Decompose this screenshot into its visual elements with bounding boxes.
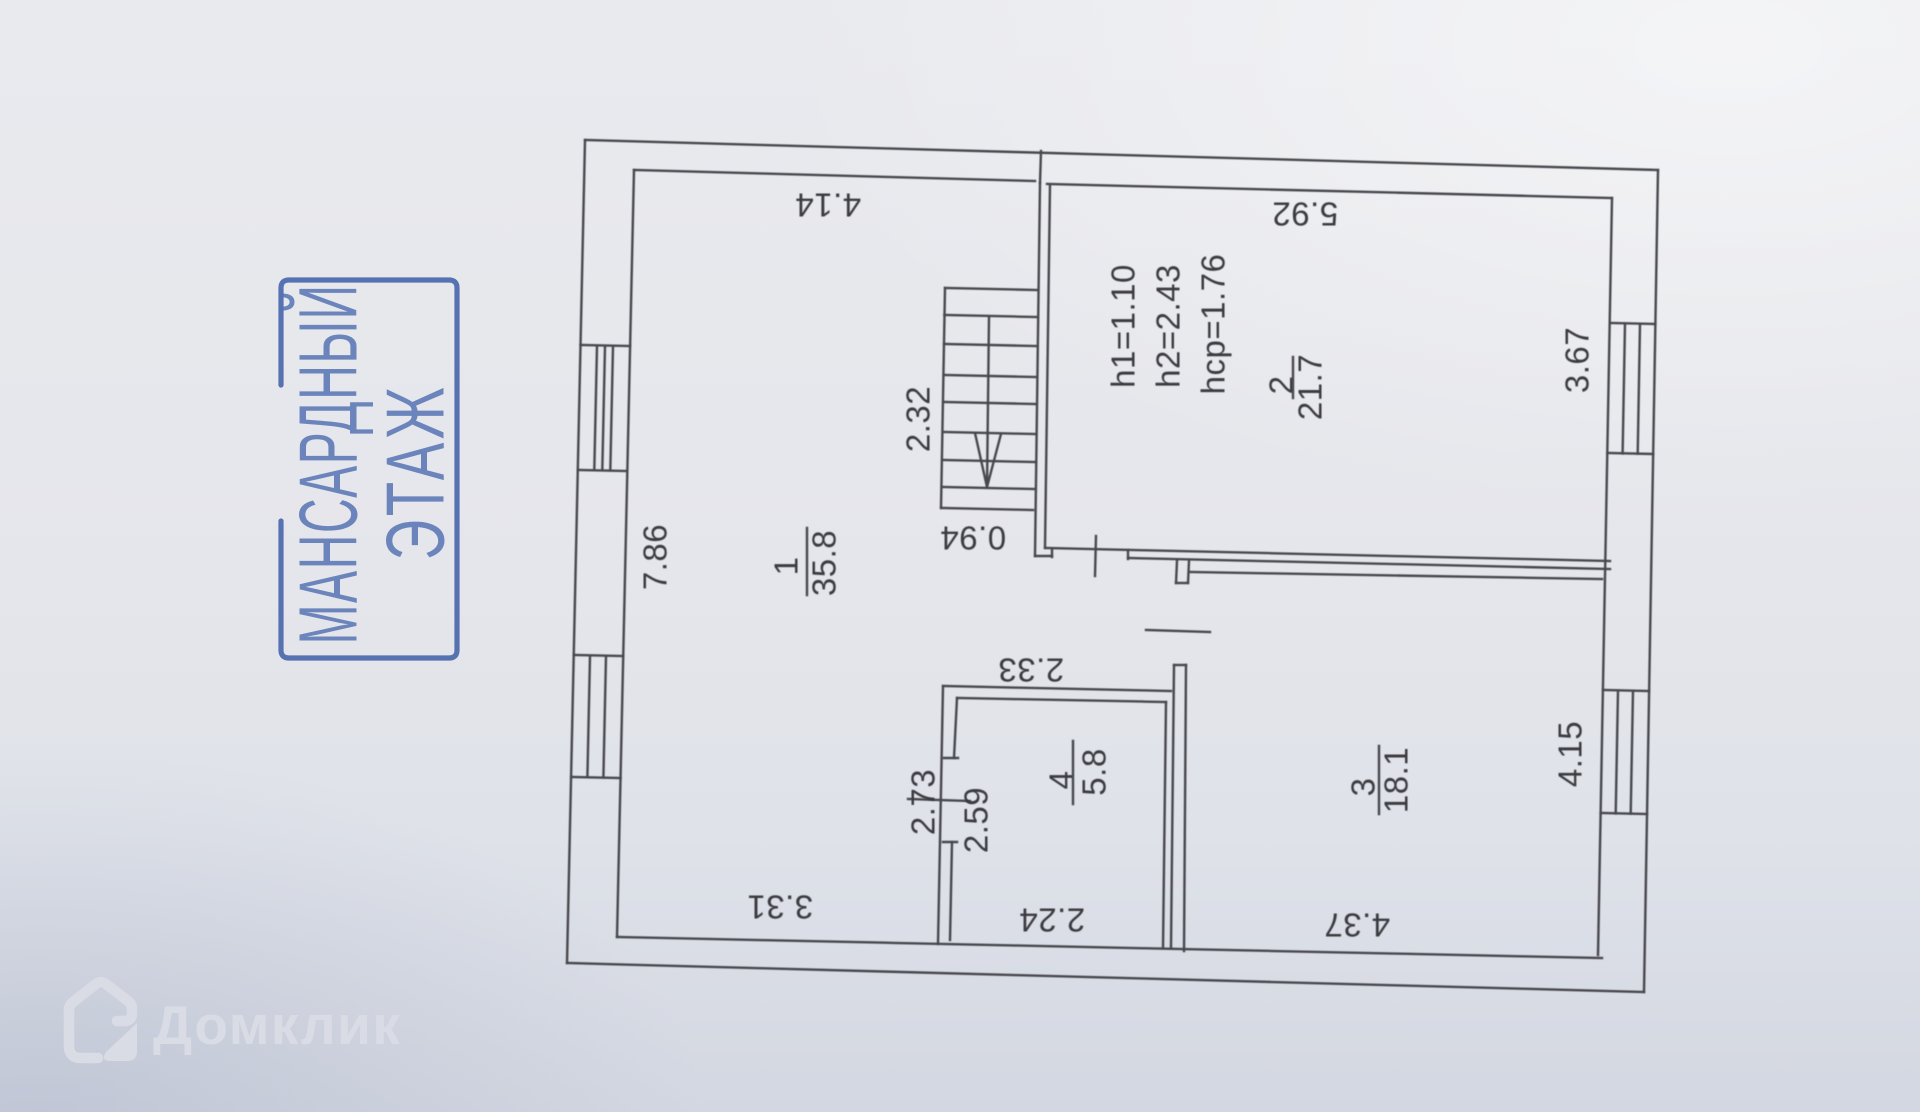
room3 top inner line — [1189, 572, 1602, 579]
svg-text:h1=1.10: h1=1.10 — [1105, 264, 1142, 388]
wall stairs/room2 line b — [1045, 185, 1050, 548]
outer wall left — [567, 140, 585, 963]
window W4 pane line — [1616, 691, 1618, 814]
svg-text:2.59: 2.59 — [958, 787, 995, 853]
room4 right wall — [1163, 702, 1166, 948]
door jamb — [1127, 550, 1129, 559]
room4 left wall outer — [938, 686, 943, 944]
svg-text:1: 1 — [768, 557, 805, 576]
room4 left wall inner upper — [954, 698, 957, 758]
stamp border — [281, 280, 457, 658]
svg-text:2.24: 2.24 — [1019, 902, 1085, 939]
window W3 cap bottom — [1607, 453, 1653, 454]
window W3 pane line — [1623, 324, 1625, 454]
outer wall top — [585, 140, 1658, 170]
svg-text:4: 4 — [1043, 771, 1080, 790]
window W2 cap bottom — [571, 777, 621, 778]
svg-text:МАНСАРДНЫЙ: МАНСАРДНЫЙ — [282, 283, 375, 644]
svg-text:hcp=1.76: hcp=1.76 — [1195, 254, 1232, 395]
outer wall bottom — [567, 963, 1644, 992]
room2 label fraction bar — [1292, 357, 1294, 398]
room3 left wall right line lower — [1184, 665, 1186, 951]
room3 left wall right line upper — [1188, 561, 1189, 583]
room3 left wall left line upper — [1176, 561, 1177, 583]
stairs left — [941, 288, 945, 508]
svg-text:2.73: 2.73 — [905, 769, 942, 835]
watermark house icon — [69, 982, 132, 1058]
room4 label fraction bar — [1072, 741, 1074, 804]
wall stairs/room2 connector — [1040, 151, 1041, 183]
stair arrow right leg — [987, 434, 1001, 487]
stair tread — [944, 375, 1036, 377]
inner wall left — [617, 170, 634, 937]
svg-text:2.33: 2.33 — [998, 652, 1064, 689]
stair center line — [987, 317, 989, 487]
room2 bottom wall lower line right — [1128, 558, 1610, 569]
room4 left wall inner lower — [950, 842, 952, 940]
svg-text:3.67: 3.67 — [1559, 327, 1596, 393]
door jamb — [1051, 549, 1053, 557]
inner wall right — [1598, 198, 1612, 955]
window W3 pane line — [1638, 324, 1640, 454]
stair tread — [943, 460, 1035, 462]
stair tread — [944, 344, 1036, 346]
watermark folded corner — [104, 1023, 137, 1061]
window W1 pane line — [602, 346, 605, 470]
inner wall top room1 — [634, 170, 1035, 181]
window W1 pane line — [610, 347, 613, 471]
svg-text:35.8: 35.8 — [806, 530, 843, 596]
svg-text:5.8: 5.8 — [1076, 748, 1113, 795]
door tick — [1095, 536, 1096, 576]
svg-text:0.94: 0.94 — [940, 520, 1006, 557]
room2 bottom wall upper line — [1045, 548, 1610, 561]
stairs top — [945, 288, 1037, 290]
svg-text:Домклик: Домклик — [153, 994, 401, 1056]
window W2 cap top — [574, 655, 624, 656]
wall stairs/room2 line a — [1035, 183, 1040, 556]
inner wall top room2 — [1047, 184, 1612, 198]
svg-text:2.32: 2.32 — [900, 386, 937, 452]
window W4 cap top — [1603, 690, 1649, 691]
svg-text:ЭТАЖ: ЭТАЖ — [369, 384, 461, 561]
svg-text:5.92: 5.92 — [1272, 196, 1338, 233]
svg-text:18.1: 18.1 — [1378, 747, 1415, 813]
window W1 cap bottom — [578, 470, 628, 471]
stair tread — [943, 432, 1035, 434]
doorway cap — [1174, 664, 1186, 666]
svg-text:4.15: 4.15 — [1552, 721, 1589, 787]
outer wall right — [1644, 170, 1658, 992]
room3 left wall left line lower — [1171, 665, 1174, 947]
watermark Domklik logo — [69, 982, 401, 1061]
svg-text:h2=2.43: h2=2.43 — [1150, 264, 1187, 388]
window W4 cap bottom — [1601, 813, 1647, 814]
room3 label fraction bar — [1378, 746, 1380, 814]
stair tread — [944, 315, 1036, 317]
room4 top wall lower line — [957, 698, 1166, 702]
window W1 pane line — [594, 346, 597, 470]
window W2 pane line — [587, 656, 590, 777]
doorway cap — [943, 841, 957, 843]
stair tread — [942, 487, 1034, 489]
doorway cap — [944, 757, 958, 759]
svg-text:3.31: 3.31 — [747, 889, 813, 926]
room1 label fraction bar — [806, 528, 808, 595]
window W3 cap top — [1610, 323, 1656, 324]
svg-text:21.7: 21.7 — [1292, 354, 1329, 420]
svg-text:3: 3 — [1345, 778, 1382, 797]
room2 bottom wall lower line left — [1035, 555, 1052, 557]
door tick — [908, 799, 970, 801]
svg-text:4.37: 4.37 — [1324, 907, 1390, 944]
stair arrow left leg — [975, 433, 987, 487]
door tick — [1146, 630, 1210, 632]
window W4 pane line — [1631, 691, 1633, 814]
window W1 cap top — [581, 345, 631, 346]
doorway cap — [1176, 582, 1188, 584]
stairs bottom — [941, 508, 1033, 510]
svg-text:4.14: 4.14 — [795, 187, 861, 224]
window W2 pane line — [603, 656, 606, 778]
svg-text:7.86: 7.86 — [637, 524, 674, 590]
stair tread — [943, 402, 1035, 404]
inner wall bottom — [617, 937, 1602, 958]
room4 top wall upper line — [943, 686, 1171, 691]
